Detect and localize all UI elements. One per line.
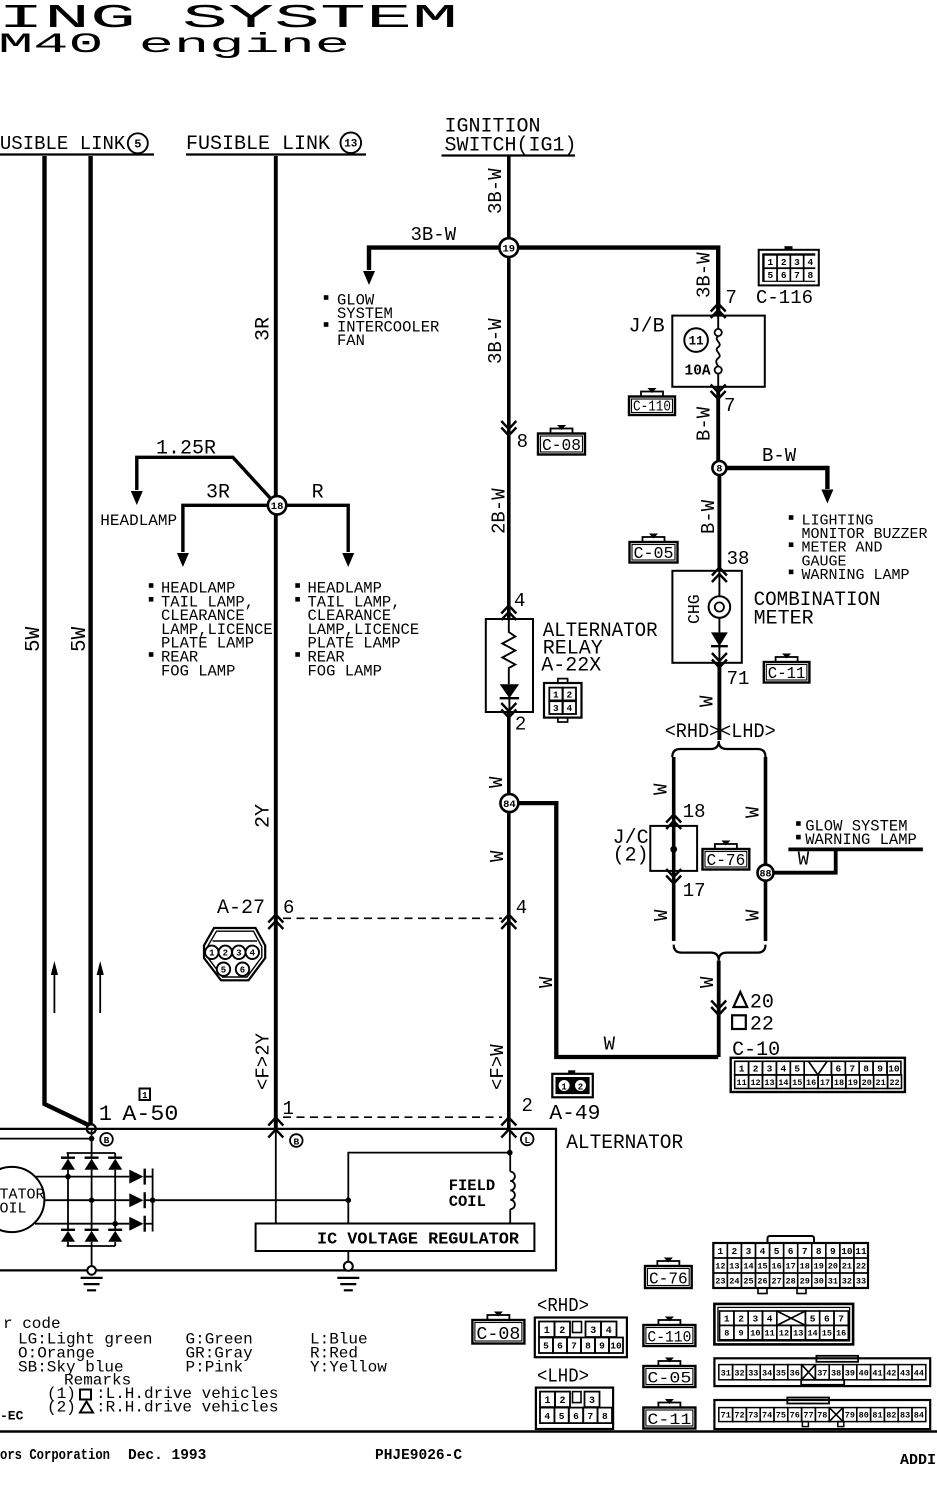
wire from junction into rectifier bus [0,1129,94,1153]
svg-text:SWITCH(IG1): SWITCH(IG1) [445,135,577,158]
wire label W (on branch) [536,976,558,988]
svg-text:20: 20 [828,1262,838,1272]
svg-text:2: 2 [559,1396,565,1407]
wire 3R branch left [177,505,268,567]
rectifier column 1 wires [67,1153,69,1246]
svg-text:W: W [536,976,558,988]
svg-text:12: 12 [779,1329,789,1339]
connector C-05 plate icon (in-line) [630,534,678,564]
svg-text:16: 16 [836,1329,846,1339]
connector A-49 pin face icon [552,1070,593,1097]
connector C-116 pin face icon [759,246,819,285]
svg-text:C-110: C-110 [633,400,671,416]
svg-text:2: 2 [515,714,526,736]
svg-text:C-11: C-11 [768,664,806,683]
svg-text:Dec. 1993: Dec. 1993 [128,1448,206,1464]
svg-text:19: 19 [814,1262,824,1272]
svg-text:2: 2 [738,1314,744,1325]
svg-text:10A: 10A [685,364,711,380]
wire label W (RHD branch lower) [651,909,673,921]
connector A-27 pin face icon [204,928,265,980]
svg-text:4: 4 [250,949,256,959]
svg-text:2Y: 2Y [253,804,276,828]
svg-text:1: 1 [724,1314,730,1325]
svg-text:3: 3 [553,703,559,714]
svg-text:2: 2 [578,1082,583,1092]
rectifier diode top 2 [85,1158,99,1170]
connector A-50 pin icon (square 1) [140,1089,151,1102]
terminal B at A-49 pin 1 [290,1134,303,1147]
connector C-08 plate icon (in-line) [538,425,585,455]
wire label 2Y [253,804,276,828]
svg-text:7: 7 [588,1411,594,1422]
wire label 2B-W [489,488,511,534]
svg-text:34: 34 [762,1368,772,1378]
svg-text:5: 5 [221,966,226,976]
wire W branch node 84 to C-10 [519,803,719,1057]
svg-text:8: 8 [807,270,813,281]
rectifier diode top 3 [108,1158,122,1170]
rectifier column 2 wires [91,1153,93,1246]
connector chevrons J/B pin 7 bottom [711,385,726,400]
footer: corporation and date [0,1448,206,1464]
wire W RHD branch (left) [672,757,676,941]
destination list: headlamp/tail lamp (right) [296,580,419,681]
combination meter box [672,571,741,663]
connector chevrons relay pin 2 [501,703,516,718]
wire label W (above node 84) [486,776,508,788]
svg-text:19: 19 [502,243,515,255]
wire 1.25R branch to HEADLAMP [131,457,270,505]
svg-text:35: 35 [776,1368,786,1378]
svg-text:10: 10 [610,1341,622,1352]
svg-text:16: 16 [771,1262,781,1272]
connector chevrons relay pin 4 [501,606,516,621]
svg-text:A-27: A-27 [217,897,265,920]
svg-text:8: 8 [816,1246,822,1257]
connector A-27 label [217,897,265,920]
svg-text:79: 79 [845,1411,855,1421]
svg-text:4: 4 [807,257,813,268]
wire label R (branch) [312,482,324,505]
svg-text:(2): (2) [613,845,649,868]
svg-text:W: W [697,695,719,707]
svg-text:B: B [293,1136,299,1147]
label FUSIBLE LINK (13) [186,133,366,157]
svg-text:38: 38 [831,1368,841,1378]
svg-text:FUSIBLE LINK: FUSIBLE LINK [186,133,330,156]
wire B (A-49 pin1) into regulator [275,1129,277,1224]
svg-text:C-76: C-76 [649,1270,688,1289]
pin 7 label (J/B top) [726,287,737,309]
svg-text:1: 1 [209,949,215,959]
svg-text:3: 3 [746,1246,752,1257]
rectifier top bus [67,1152,116,1154]
svg-text:R: R [312,482,324,505]
svg-text:24: 24 [729,1277,739,1287]
pin 2 label (alternator relay) [515,714,526,736]
wire label <F>W [487,1044,509,1090]
node 84 splice [500,794,518,812]
trio diode 1 (to regulator sense) [129,1169,152,1185]
svg-text:84: 84 [914,1411,924,1421]
rectifier diode bottom 2 [85,1230,99,1242]
svg-text:7: 7 [794,270,800,281]
charge warning lamp (bulb) [709,571,731,633]
svg-text:W: W [697,976,719,988]
svg-text:HEADLAMP: HEADLAMP [100,512,177,530]
svg-text:14: 14 [778,1078,788,1088]
svg-text:4: 4 [514,590,525,612]
flow arrow on right 5W wire [97,961,104,1013]
pin 2 label (A-49 right) [522,1095,533,1117]
wire R branch right [286,505,354,567]
svg-text:15: 15 [792,1078,802,1088]
svg-text:1: 1 [99,1102,112,1127]
svg-text:33: 33 [856,1277,866,1287]
wire label W (LHD branch upper) [743,806,765,818]
connector C-08 LHD pin face diagram [536,1388,613,1429]
connector chevrons C-08 pin 8 [501,421,516,436]
svg-text:13: 13 [344,139,358,151]
svg-text:COIL: COIL [0,1201,27,1218]
pin 4 label (alternator relay) [514,590,525,612]
label HEADLAMP (destination) [100,512,177,530]
svg-text:14: 14 [807,1329,817,1339]
svg-text:31: 31 [828,1277,838,1287]
wire label W (LHD branch lower) [743,909,765,921]
label J/B [629,316,665,339]
svg-text:3B-W: 3B-W [485,168,507,214]
svg-text:1: 1 [717,1246,723,1257]
svg-text:13: 13 [729,1262,739,1272]
svg-text:20: 20 [862,1078,872,1088]
wire 5W right (fusible link 5) [88,156,92,1125]
connector C-76 plate icon (in-line) [703,841,750,871]
pin 7 label (J/B bottom) [724,395,735,417]
svg-text::R.H.drive vehicles: :R.H.drive vehicles [96,1399,278,1417]
destination list: glow system / warning lamp (right) [797,818,917,850]
brace upper (split RHD/LHD) [672,741,765,757]
svg-text:4: 4 [606,1326,612,1337]
rectifier diode top 1 [61,1158,75,1170]
svg-text:38: 38 [727,548,750,570]
svg-text:4: 4 [567,703,573,714]
svg-text:FUSIBLE LINK: FUSIBLE LINK [0,133,126,155]
svg-text:2: 2 [559,1326,565,1337]
wire W LHD branch (right) [764,757,768,941]
svg-text:26: 26 [757,1277,767,1287]
svg-text:43: 43 [900,1368,910,1378]
svg-text:8: 8 [724,1329,729,1339]
label COMBINATION METER [754,589,881,631]
svg-text:<LHD>: <LHD> [537,1366,589,1388]
rectifier diode bottom 1 [61,1230,75,1242]
svg-text:5: 5 [810,1314,816,1325]
svg-text:18: 18 [800,1262,810,1272]
svg-text:A-22X: A-22X [541,655,601,678]
svg-text:16: 16 [806,1078,816,1088]
svg-text:2: 2 [781,257,787,268]
connector C-116 label [756,287,813,309]
label <LHD> (C-08 table) [537,1366,589,1388]
connector C-05 pin face diagram [714,1356,930,1386]
connector chevrons J/B pin 7 top [711,304,726,319]
connector C-76 pin face diagram [713,1236,868,1294]
svg-text:17: 17 [820,1078,830,1088]
node 19 splice [499,238,518,257]
svg-text:B-W: B-W [698,499,720,534]
svg-text:J/B: J/B [629,316,665,339]
svg-text:6: 6 [824,1314,830,1325]
svg-text:14: 14 [743,1262,753,1272]
footer: ADD (cut) [900,1452,936,1469]
svg-text:C-11: C-11 [647,1411,691,1429]
wire label W (merged branch) [697,976,719,988]
wire B-W J/B to node 8 [716,387,720,468]
svg-text:10: 10 [841,1246,853,1257]
label <RHD> (C-08 table) [537,1295,589,1317]
svg-text:<F>W: <F>W [487,1044,509,1090]
svg-text:C-76: C-76 [707,851,746,870]
svg-text:5: 5 [768,270,774,281]
svg-text:27: 27 [771,1277,781,1287]
wire label 1.25R [156,438,216,461]
svg-text:72: 72 [734,1411,744,1421]
node 88 splice [758,865,774,881]
pin 6 label (A-27) [283,897,294,919]
connector chevrons A-49 pin 2 [501,1118,516,1138]
diode inside alternator relay [500,684,519,712]
svg-text:18: 18 [683,801,706,823]
wire W meter to RHD/LHD split [717,663,721,740]
svg-text:31: 31 [721,1368,731,1378]
wire 3R/2Y fusible link 13 vertical [274,156,278,1129]
junction connector J/C (2) box [650,826,697,871]
footer: document number PHJE9026-C [375,1448,462,1464]
svg-text:W: W [604,1034,616,1056]
svg-text:2: 2 [567,689,573,700]
svg-text:73: 73 [748,1411,758,1421]
svg-text:8: 8 [517,431,528,453]
wire L terminal into alternator [509,1129,511,1153]
label <RHD><LHD> [665,721,776,744]
ground symbol (regulator) [337,1251,359,1290]
svg-text:4: 4 [767,1314,773,1325]
connector chevrons J/C pin 17 [666,869,681,884]
svg-text:23: 23 [715,1277,725,1287]
svg-text:9: 9 [599,1341,605,1352]
svg-text:W: W [651,783,673,795]
svg-text:3: 3 [794,257,800,268]
svg-text:A-49: A-49 [549,1103,600,1126]
svg-text:32: 32 [842,1277,852,1287]
svg-text:C-05: C-05 [634,544,674,563]
wire B-W node 8 to combination meter [717,468,721,571]
connector C-11 plate icon (in-line) [764,654,810,684]
junction A-50 splice (open circle) [87,1124,96,1133]
svg-text:3B-W: 3B-W [485,318,507,364]
svg-text:FOG LAMP: FOG LAMP [161,662,235,680]
wire label <F>2Y [253,1032,275,1090]
svg-text:B-W: B-W [694,406,716,441]
connector chevrons meter pin 38 [712,568,727,583]
svg-text:13: 13 [793,1329,803,1339]
wire 5W left (fusible link 5) [45,156,91,1126]
wire color code table [18,1331,387,1377]
svg-text:13: 13 [764,1078,774,1088]
connector chevrons meter pin 71 [712,653,727,668]
svg-text:1: 1 [768,257,774,268]
svg-text:5W: 5W [23,626,46,652]
pin 1 label (A-49) [283,1098,294,1120]
dashed connector line A-49 (pin 1 to pin 2) [283,1116,502,1118]
svg-text:12: 12 [750,1078,760,1088]
svg-text:C-110: C-110 [647,1329,691,1347]
svg-text:6: 6 [240,966,245,976]
svg-text:(2): (2) [47,1399,76,1417]
svg-text:W: W [486,776,508,788]
connector C-08 RHD pin face diagram [535,1318,627,1358]
svg-text:3R: 3R [206,482,230,505]
svg-text:W: W [743,806,765,818]
svg-text:8: 8 [716,465,722,476]
wire W relay to node 84 [507,712,511,803]
rectifier diode bottom 3 [108,1230,122,1242]
svg-text:1: 1 [561,1082,567,1092]
stator coil circle [0,1167,45,1232]
svg-text:IC VOLTAGE REGULATOR: IC VOLTAGE REGULATOR [317,1230,519,1249]
svg-text:WARNING LAMP: WARNING LAMP [802,567,910,584]
svg-text:32: 32 [734,1368,744,1378]
svg-text:FOG LAMP: FOG LAMP [308,662,382,680]
wire label 3R (branch) [206,482,230,505]
svg-text:<F>2Y: <F>2Y [253,1032,275,1090]
wire 3B-W ignition switch vertical [507,156,511,619]
svg-text:3: 3 [590,1326,596,1337]
wire label W (below meter) [697,695,719,707]
wire label 3B-W (horizontal) [411,224,457,246]
connector C-76 plate icon (legend) [645,1258,692,1289]
svg-text:11: 11 [689,335,704,349]
svg-text:33: 33 [748,1368,758,1378]
connector C-110 pin face diagram [714,1304,853,1345]
wire color code heading (cut) [3,1315,61,1333]
svg-text:-EC: -EC [0,1409,24,1424]
svg-text:C-08: C-08 [476,1325,520,1345]
svg-text:71: 71 [721,1411,731,1421]
svg-text:18: 18 [271,501,284,513]
svg-text:7: 7 [802,1246,808,1257]
svg-text:1: 1 [739,1064,745,1075]
connector C-11 pin face diagram [714,1398,930,1430]
remark triangle pin 20 (RHD) [734,992,774,1015]
svg-text:C-08: C-08 [542,436,581,455]
connector C-10 pin face diagram [731,1058,905,1092]
svg-text:4: 4 [760,1246,766,1257]
wire label B-W (below node 8) [698,499,720,534]
svg-text:2: 2 [753,1064,759,1075]
svg-text:88: 88 [759,869,771,880]
svg-text:12: 12 [715,1262,725,1272]
svg-text:18: 18 [834,1078,844,1088]
wire label W (bottom horizontal) [604,1034,616,1056]
svg-text:25: 25 [743,1277,753,1287]
svg-text:8: 8 [863,1064,869,1075]
svg-text:19: 19 [848,1078,858,1088]
label CHG (rotated) [685,594,704,624]
alternator box [0,1129,556,1271]
svg-text:CHG: CHG [685,594,704,624]
svg-text:44: 44 [914,1368,924,1378]
svg-text:11: 11 [737,1078,747,1088]
svg-text:6: 6 [557,1341,563,1352]
wire label 3B-W (right branch) [694,252,716,298]
destination list: lighting monitor buzzer / meter and gauge / warning lamp [790,513,928,584]
svg-text:C-05: C-05 [647,1370,691,1388]
svg-text:W: W [743,909,765,921]
wire 3B-W branch right from node 19 to J/B [518,248,718,316]
pin 71 label [727,668,750,690]
connector C-11 plate icon (legend) [643,1399,695,1429]
wire label 5W (right) [69,626,92,652]
trio diode 2 (to regulator sense) [129,1192,152,1208]
connector C-08 plate icon (legend) [472,1312,524,1346]
svg-text:15: 15 [757,1262,767,1272]
svg-text:71: 71 [727,668,750,690]
wire label 3R [253,317,276,341]
svg-text:30: 30 [814,1277,824,1287]
svg-text:5: 5 [543,1341,549,1352]
connector C-110 plate icon (in-line) [629,388,675,416]
svg-text:5: 5 [774,1246,780,1257]
field coil [510,1153,515,1224]
junction block J/B box [672,316,765,387]
svg-text:28: 28 [786,1277,796,1287]
svg-text:3: 3 [589,1396,595,1407]
svg-text:COIL: COIL [449,1193,486,1211]
svg-text:7: 7 [724,395,735,417]
svg-text:17: 17 [786,1262,796,1272]
svg-text:75: 75 [776,1411,786,1421]
svg-text:11: 11 [855,1246,867,1257]
svg-text:22: 22 [750,1014,774,1037]
svg-text:ALTERNATOR: ALTERNATOR [566,1132,683,1155]
svg-text:4: 4 [516,897,527,919]
svg-text:P:Pink: P:Pink [186,1359,244,1377]
connector A-49 label [549,1103,600,1126]
connector A-22X pin face icon [544,679,582,722]
svg-text:21: 21 [876,1078,886,1088]
svg-text:L: L [524,1135,530,1146]
connector chevrons C-10 pin [711,1001,726,1016]
svg-text:5W: 5W [69,626,92,652]
svg-text:2: 2 [522,1095,533,1117]
svg-text:Y:Yellow: Y:Yellow [310,1359,387,1377]
wire label B-W (above node 8) [694,406,716,441]
stator phase wire 3 [35,1221,129,1227]
svg-text:ors Corporation: ors Corporation [0,1448,110,1464]
wire 3B-W branch to glow system (left from node 19) [363,248,499,285]
svg-text:6: 6 [835,1064,841,1075]
svg-text:10: 10 [888,1064,900,1075]
svg-text:39: 39 [845,1368,855,1378]
label J/C (2) [613,827,649,868]
svg-text:A-50: A-50 [122,1102,178,1127]
svg-text:7: 7 [849,1064,855,1075]
svg-text:2B-W: 2B-W [489,488,511,534]
wire label W (node 88 branch) [798,849,810,871]
